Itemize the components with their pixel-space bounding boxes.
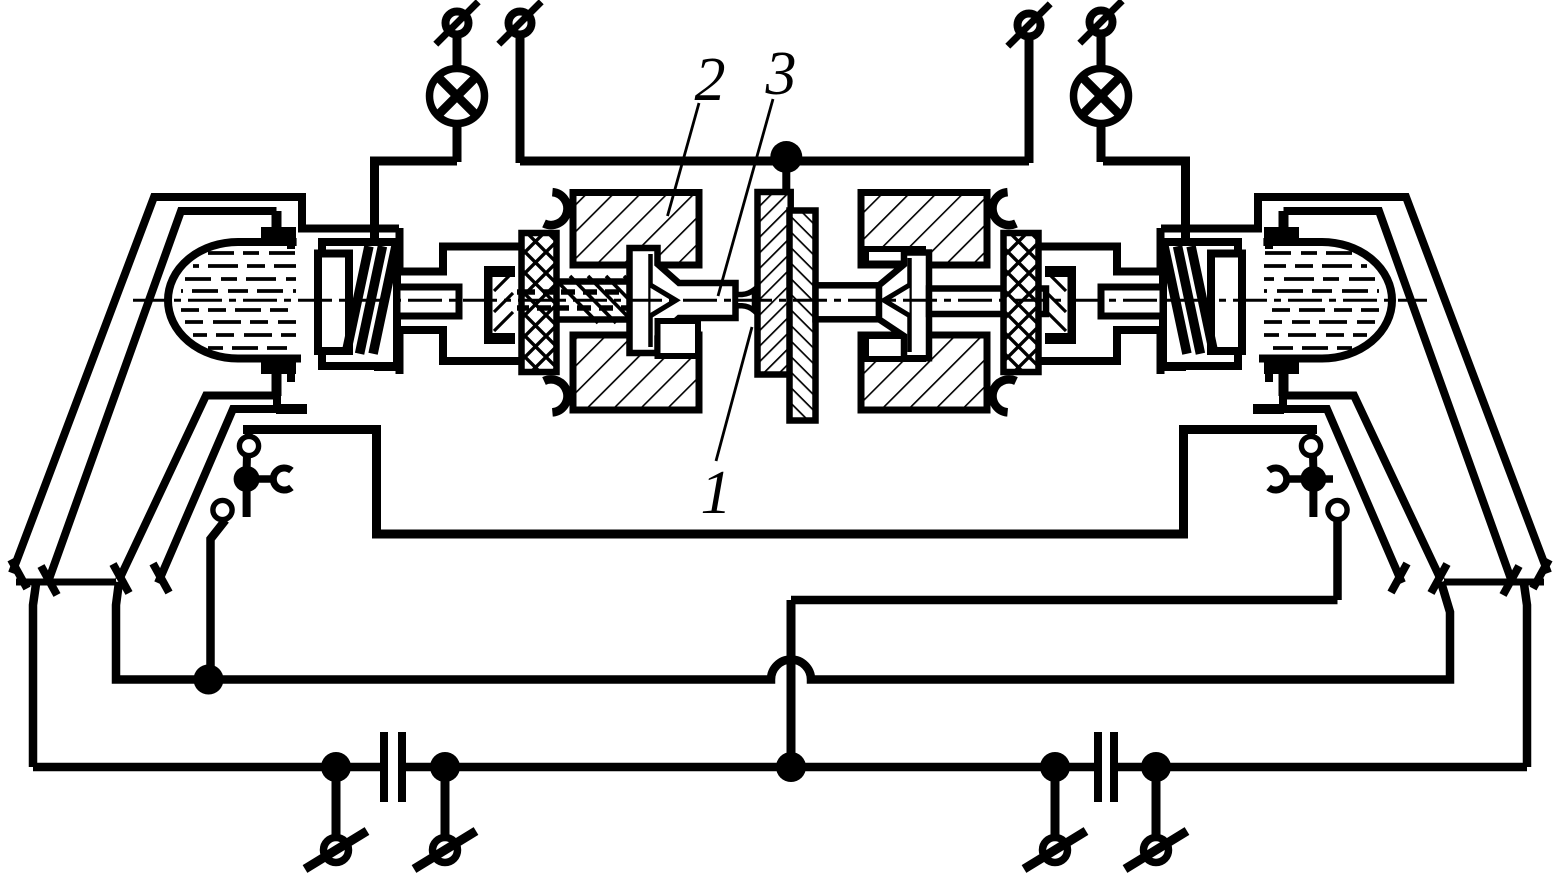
bottom terminal	[1152, 767, 1161, 838]
top bus wire	[520, 157, 1029, 166]
insulator bar left	[522, 233, 557, 372]
getter horseshoe	[273, 468, 291, 490]
spring washer upper	[544, 192, 567, 225]
end cap bracket	[484, 266, 515, 344]
feedthrough ring upper	[239, 436, 258, 455]
lamp right	[1097, 34, 1106, 69]
junction node	[770, 141, 802, 173]
svg-text:3: 3	[765, 40, 797, 108]
junction node	[776, 752, 806, 782]
disc plate left	[758, 192, 791, 375]
wire C with hop	[116, 582, 1450, 680]
getter node	[234, 466, 260, 492]
seal rings	[341, 245, 373, 355]
plate-line link	[1309, 431, 1315, 438]
shaft	[397, 287, 459, 316]
glass envelope inner wall	[48, 211, 277, 582]
hidden thread dashes	[517, 289, 628, 295]
capacitor right	[1094, 732, 1102, 802]
electrode holder right	[879, 253, 929, 359]
wire terminal T1	[446, 12, 469, 35]
housing wall and base	[243, 430, 781, 535]
getter node	[1300, 466, 1326, 492]
disc plate right	[790, 211, 816, 421]
wire D left lead	[33, 584, 36, 767]
coil block lower-right	[861, 335, 987, 410]
feedthrough ring lower	[213, 500, 232, 519]
capacitor left	[380, 732, 388, 802]
wire terminal T3	[1018, 14, 1041, 37]
insulator bar right	[1004, 233, 1039, 372]
junction node	[1141, 752, 1171, 782]
wire terminal T2	[509, 12, 532, 35]
lamp left	[453, 35, 462, 69]
wire stub right cluster	[1313, 475, 1333, 483]
glass envelope outer wall	[12, 197, 399, 573]
wire stub to disc	[782, 157, 790, 213]
tube break ticks	[11, 560, 27, 589]
seal stack frame	[322, 242, 397, 366]
envelope end joint	[16, 579, 116, 586]
bottom terminal	[1051, 767, 1060, 838]
wire terminal T4	[1090, 11, 1113, 34]
axis centerline	[133, 299, 1427, 302]
wire from T3	[1025, 37, 1034, 163]
thread hatch	[552, 276, 670, 323]
piston plate	[318, 254, 349, 352]
center vertical wire	[787, 600, 796, 767]
junction node	[321, 752, 351, 782]
inner tube outer wall	[119, 396, 277, 581]
coil block upper-right	[861, 193, 987, 266]
bottom terminal	[332, 767, 341, 838]
right block window upper	[866, 249, 923, 264]
threaded shank outline	[551, 278, 630, 285]
wire from right lower ring to bus B	[1333, 521, 1342, 600]
electrode holder left	[630, 248, 736, 353]
wire D right lead	[1524, 584, 1527, 767]
coil block upper-left	[573, 193, 699, 266]
dome chamber	[168, 242, 301, 359]
countersink	[651, 285, 677, 316]
feedthrough ring upper	[1301, 436, 1320, 455]
junction node	[430, 752, 460, 782]
right block window lower	[866, 336, 923, 359]
hidden thread dashes over bar	[521, 289, 557, 295]
bottom terminal	[441, 767, 450, 838]
liquid fill dashes	[181, 253, 296, 348]
housing shelf upper	[374, 243, 523, 272]
feedthrough ring lower	[1328, 500, 1347, 519]
getter horseshoe	[1269, 468, 1287, 490]
wire D	[33, 763, 384, 772]
wire	[375, 161, 458, 241]
envelope shoulder stubs	[272, 211, 282, 243]
inner tube inner wall	[158, 409, 303, 583]
junction node	[1040, 752, 1070, 782]
wire from T2	[516, 35, 525, 163]
right electrode shaft	[816, 285, 880, 319]
electrode tip left	[736, 290, 755, 312]
wire B	[791, 596, 1338, 605]
junction on C	[194, 665, 224, 695]
countersink right	[884, 285, 910, 316]
right shaft to cap	[929, 289, 1046, 315]
svg-text:1: 1	[701, 459, 732, 527]
coil block lower-left	[573, 335, 699, 410]
wire from left lower ring	[211, 520, 226, 672]
left block pocket lower	[658, 321, 699, 356]
spring washer lower	[544, 379, 567, 412]
plate-line link	[246, 431, 252, 438]
housing shelf lower	[374, 330, 523, 367]
